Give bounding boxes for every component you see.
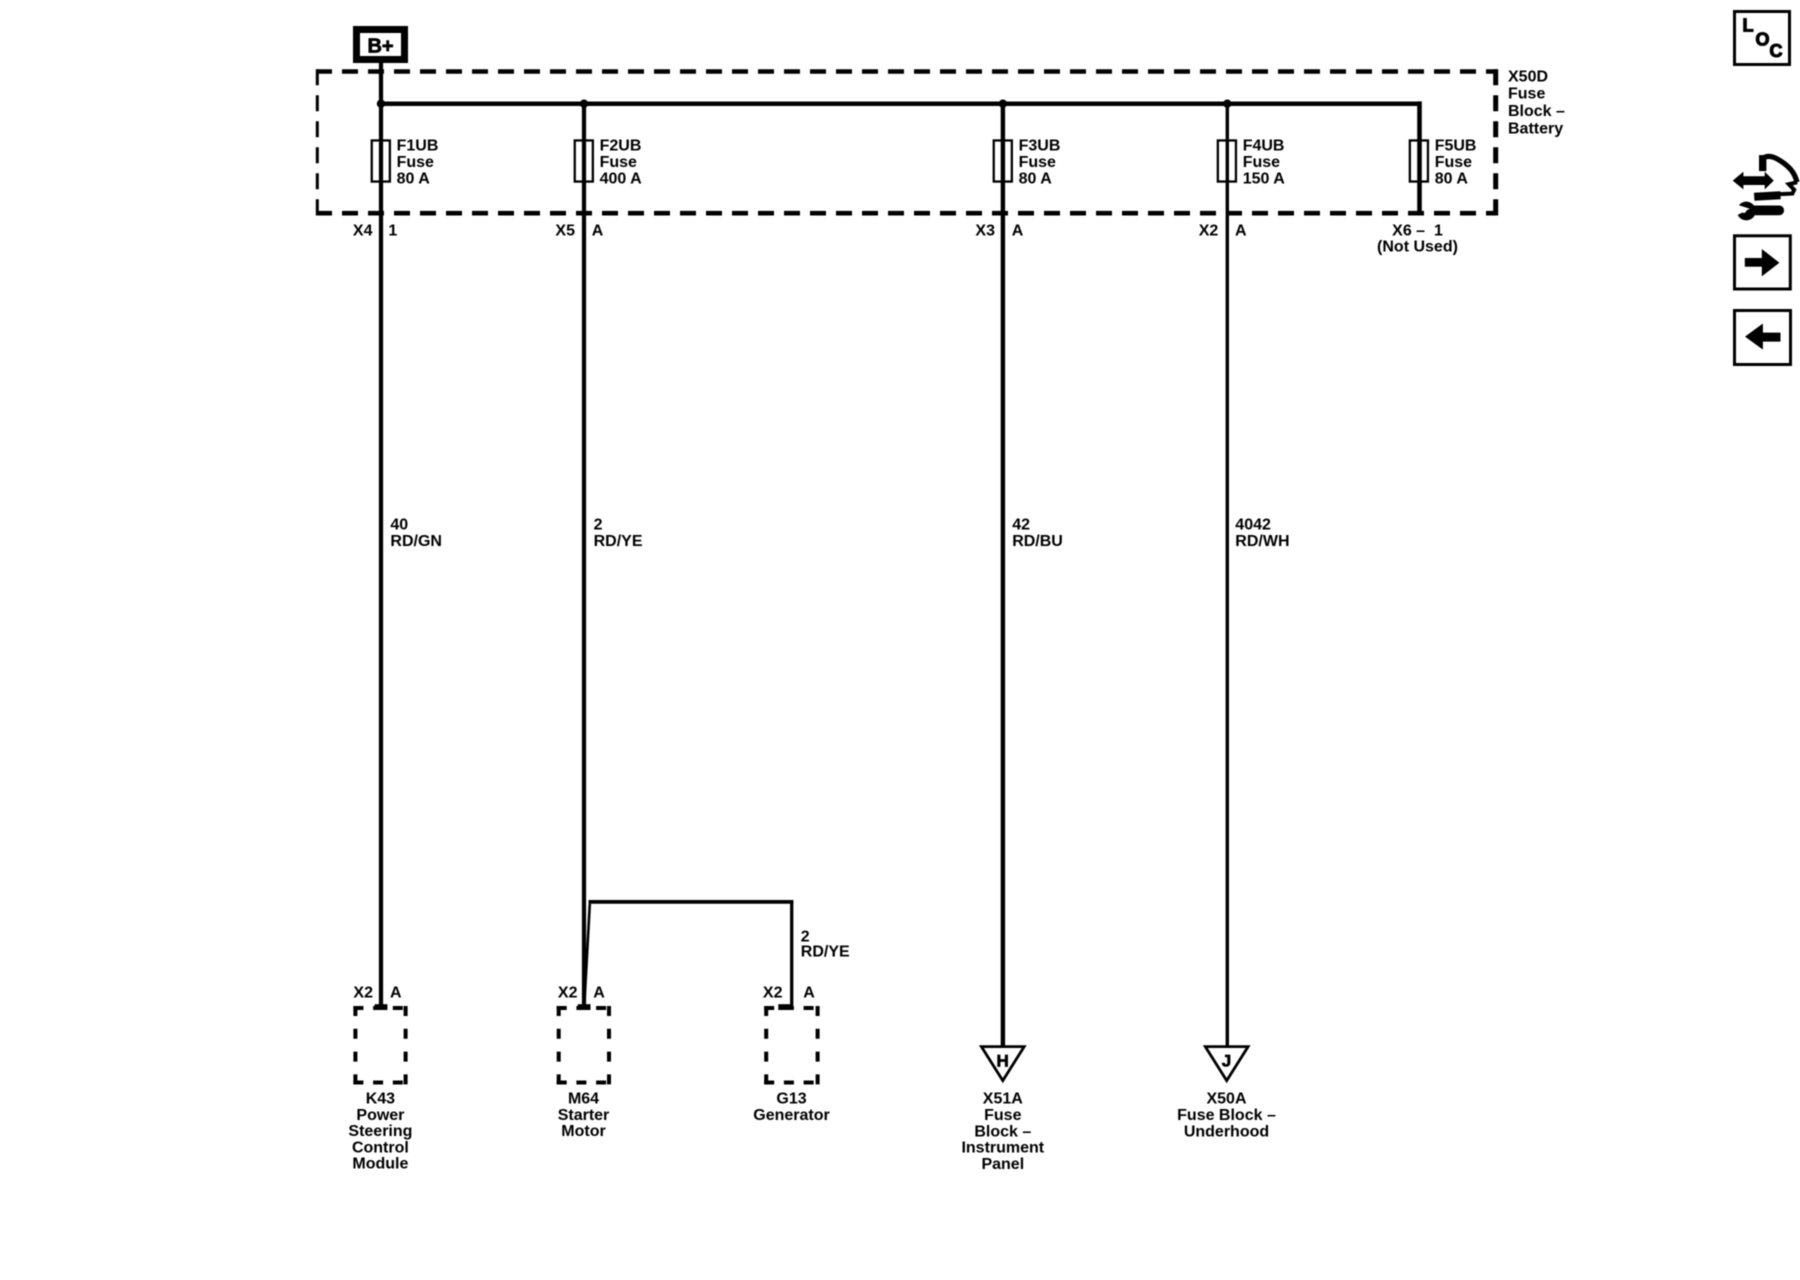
svg-text:X4: X4 bbox=[353, 223, 373, 240]
bus wire inside fuse block bbox=[379, 101, 1420, 106]
svg-text:H: H bbox=[996, 1052, 1008, 1071]
svg-text:42: 42 bbox=[1012, 517, 1030, 534]
svg-text:L: L bbox=[1743, 16, 1754, 36]
label M64 Starter Motor bbox=[558, 1091, 610, 1141]
junction node at F2UB bbox=[580, 100, 588, 108]
svg-text:A: A bbox=[1012, 223, 1024, 240]
svg-text:RD/YE: RD/YE bbox=[801, 944, 850, 961]
label F1UB Fuse 80 A bbox=[397, 138, 439, 188]
svg-text:Fuse: Fuse bbox=[984, 1107, 1021, 1124]
junction node at F1UB bbox=[377, 100, 385, 108]
wire F4UB to connector J bbox=[1226, 104, 1229, 1047]
svg-text:G13: G13 bbox=[776, 1091, 806, 1108]
svg-text:2: 2 bbox=[594, 517, 603, 534]
svg-text:X2: X2 bbox=[558, 985, 578, 1002]
connector M64 dashed box bbox=[557, 1004, 611, 1084]
connector K43 dashed box bbox=[353, 1004, 407, 1084]
svg-text:(Not Used): (Not Used) bbox=[1377, 239, 1458, 256]
fuse F1UB bbox=[372, 140, 390, 181]
svg-text:Block –: Block – bbox=[1508, 103, 1565, 120]
svg-text:Instrument: Instrument bbox=[961, 1140, 1044, 1157]
svg-text:C: C bbox=[1770, 41, 1783, 61]
svg-text:400 A: 400 A bbox=[600, 171, 643, 188]
connector G13 dashed box bbox=[764, 1004, 819, 1084]
svg-text:1: 1 bbox=[388, 223, 397, 240]
svg-text:J: J bbox=[1222, 1052, 1231, 1071]
forward arrow icon bbox=[1735, 236, 1791, 289]
power node B+ bbox=[357, 30, 405, 60]
wire F2UB to M64 bbox=[582, 104, 586, 1006]
wire B+ down to bus and K43 bbox=[379, 63, 383, 1006]
svg-text:RD/BU: RD/BU bbox=[1012, 533, 1063, 550]
svg-text:K43: K43 bbox=[366, 1091, 395, 1108]
svg-text:F5UB: F5UB bbox=[1435, 138, 1477, 155]
label F5UB Fuse 80 A bbox=[1435, 138, 1477, 188]
svg-text:X6 – 1: X6 – 1 bbox=[1392, 223, 1443, 240]
schematic icon (double arrow, outline, wrench) bbox=[1733, 155, 1798, 220]
svg-text:RD/YE: RD/YE bbox=[594, 533, 643, 550]
svg-text:A: A bbox=[803, 985, 815, 1002]
svg-text:150 A: 150 A bbox=[1243, 171, 1286, 188]
svg-text:A: A bbox=[592, 223, 604, 240]
back arrow icon bbox=[1735, 311, 1791, 365]
svg-text:O: O bbox=[1756, 30, 1770, 50]
svg-text:Fuse: Fuse bbox=[1243, 154, 1280, 171]
svg-text:4042: 4042 bbox=[1235, 517, 1271, 534]
svg-text:A: A bbox=[1235, 223, 1247, 240]
LOC icon bbox=[1735, 12, 1790, 65]
pin label X5 A bbox=[555, 223, 603, 240]
svg-text:Power: Power bbox=[356, 1107, 404, 1124]
svg-text:Generator: Generator bbox=[753, 1107, 829, 1124]
wire label 42 RD/BU bbox=[1012, 517, 1063, 551]
pin label X6 - 1 (Not Used) bbox=[1377, 223, 1458, 256]
wire F5UB not used bbox=[1417, 101, 1422, 215]
pin label X3 A bbox=[975, 223, 1023, 240]
svg-text:X2: X2 bbox=[1199, 223, 1219, 240]
svg-text:F1UB: F1UB bbox=[397, 138, 439, 155]
svg-text:Starter: Starter bbox=[558, 1107, 610, 1124]
svg-text:M64: M64 bbox=[568, 1091, 599, 1108]
svg-text:Fuse: Fuse bbox=[1019, 154, 1056, 171]
label F4UB Fuse 150 A bbox=[1243, 138, 1286, 188]
svg-text:80 A: 80 A bbox=[1019, 171, 1053, 188]
splice branch wire to G13 bbox=[584, 900, 793, 1006]
svg-text:A: A bbox=[390, 985, 402, 1002]
svg-text:F3UB: F3UB bbox=[1019, 138, 1061, 155]
label F3UB Fuse 80 A bbox=[1019, 138, 1061, 188]
svg-text:Fuse Block –: Fuse Block – bbox=[1177, 1107, 1276, 1124]
svg-text:Fuse: Fuse bbox=[397, 154, 434, 171]
svg-text:Fuse: Fuse bbox=[600, 154, 637, 171]
label X50D Fuse Block - Battery bbox=[1508, 68, 1565, 137]
svg-text:F2UB: F2UB bbox=[600, 138, 642, 155]
off-page connector H bbox=[981, 1047, 1024, 1081]
svg-text:40: 40 bbox=[390, 517, 408, 534]
svg-text:Battery: Battery bbox=[1508, 120, 1563, 137]
fuse F5UB bbox=[1410, 140, 1428, 181]
svg-text:Motor: Motor bbox=[561, 1123, 605, 1140]
svg-text:Panel: Panel bbox=[981, 1156, 1024, 1173]
off-page connector J bbox=[1205, 1047, 1248, 1081]
svg-text:Control: Control bbox=[352, 1139, 409, 1156]
label G13 Generator bbox=[753, 1091, 829, 1124]
svg-text:X51A: X51A bbox=[983, 1091, 1023, 1108]
pin label X4 1 bbox=[353, 223, 397, 240]
junction node at F4UB bbox=[1223, 100, 1231, 108]
pin label X2 A at M64 bbox=[558, 985, 605, 1002]
wire label 40 RD/GN bbox=[390, 517, 442, 551]
svg-text:Fuse: Fuse bbox=[1435, 154, 1472, 171]
svg-text:A: A bbox=[593, 985, 605, 1002]
svg-text:Underhood: Underhood bbox=[1184, 1123, 1269, 1140]
svg-text:X5: X5 bbox=[555, 223, 575, 240]
svg-text:X2: X2 bbox=[763, 985, 783, 1002]
label K43 Power Steering Control Module bbox=[348, 1091, 412, 1173]
label X51A Fuse Block - Instrument Panel bbox=[961, 1091, 1044, 1173]
pin label X2 A bbox=[1199, 223, 1247, 240]
svg-text:X2: X2 bbox=[353, 985, 373, 1002]
svg-text:X50D: X50D bbox=[1508, 68, 1548, 85]
label X50A Fuse Block - Underhood bbox=[1177, 1091, 1276, 1141]
svg-text:80 A: 80 A bbox=[1435, 171, 1469, 188]
wire label 4042 RD/WH bbox=[1235, 517, 1289, 551]
svg-text:RD/GN: RD/GN bbox=[390, 533, 442, 550]
svg-text:Fuse: Fuse bbox=[1508, 86, 1545, 103]
pin label X2 A at G13 bbox=[763, 985, 815, 1002]
svg-text:X3: X3 bbox=[975, 223, 995, 240]
svg-text:X50A: X50A bbox=[1206, 1091, 1246, 1108]
svg-text:RD/WH: RD/WH bbox=[1235, 533, 1289, 550]
label F2UB Fuse 400 A bbox=[600, 138, 643, 188]
pin label X2 A at K43 bbox=[353, 985, 402, 1002]
wire label 2 RD/YE bbox=[594, 517, 643, 551]
wire label 2 RD/YE (branch) bbox=[801, 929, 850, 961]
svg-text:F4UB: F4UB bbox=[1243, 138, 1285, 155]
junction node at F3UB bbox=[999, 100, 1007, 108]
fuse F4UB bbox=[1218, 140, 1236, 181]
svg-text:Module: Module bbox=[352, 1156, 408, 1173]
svg-text:80 A: 80 A bbox=[397, 171, 431, 188]
svg-text:B+: B+ bbox=[367, 36, 393, 58]
svg-text:Steering: Steering bbox=[348, 1123, 412, 1140]
fuse F3UB bbox=[994, 140, 1012, 181]
fuse block X50D dashed box bbox=[316, 69, 1498, 215]
svg-text:Block –: Block – bbox=[974, 1123, 1031, 1140]
fuse F2UB bbox=[575, 140, 593, 181]
wire F3UB to connector H bbox=[1001, 104, 1005, 1047]
